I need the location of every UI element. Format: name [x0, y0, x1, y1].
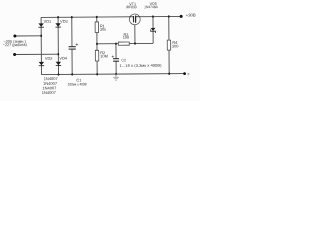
junction node gate net C2: [115, 42, 117, 45]
diode VD1: [38, 23, 43, 27]
junction node top rail R4: [168, 15, 170, 18]
wire gate net: [97, 42, 153, 44]
junction node top rail col2: [57, 16, 59, 19]
zener diode VD5: [151, 28, 156, 33]
junction node top rail C1: [71, 16, 73, 19]
resistor R1: [95, 22, 98, 33]
junction node bottom rail C1: [71, 73, 73, 76]
diode VD2: [39, 62, 44, 66]
svg-text:С2: С2: [121, 58, 126, 62]
svg-text:30к: 30к: [100, 27, 106, 32]
capacitor C2: [113, 59, 119, 62]
svg-text:1N4007: 1N4007: [42, 90, 57, 95]
wire bridge column 1: [40, 17, 42, 74]
resistor R3: [118, 42, 129, 45]
terminal output common: [183, 72, 186, 75]
resistor R4: [167, 40, 170, 50]
diode VD4: [56, 62, 61, 66]
terminal input A: [13, 34, 16, 37]
junction node top rail R1: [96, 16, 98, 19]
svg-text:1N4748A: 1N4748A: [144, 5, 158, 9]
junction node bottom rail R2: [96, 73, 98, 76]
wire R4 branch: [168, 17, 170, 74]
wire zener branch: [152, 17, 154, 44]
wire bridge column 2: [57, 17, 59, 74]
svg-text:+30В: +30В: [186, 13, 196, 18]
capacitor C1: [69, 47, 76, 49]
terminal input B: [13, 53, 16, 56]
resistor R2: [95, 50, 98, 61]
plus polarity C1: [76, 43, 79, 46]
plus polarity C2: [112, 56, 114, 58]
junction node bottom rail col2: [58, 73, 60, 76]
wire C1 branch: [71, 17, 73, 74]
svg-text:1...16 х (3,3мк х 400В): 1...16 х (3,3мк х 400В): [119, 64, 161, 68]
wire gate lead VT1: [134, 25, 136, 44]
junction node bottom rail R4: [168, 72, 170, 75]
svg-text:IRF830: IRF830: [126, 5, 137, 9]
junction node bottom rail ground: [115, 73, 117, 76]
svg-text:VD3: VD3: [60, 19, 68, 24]
svg-text:VD4: VD4: [59, 56, 67, 61]
svg-text:100мк х 400В: 100мк х 400В: [68, 82, 88, 86]
terminal +30V: [180, 15, 183, 18]
svg-text:100: 100: [123, 35, 130, 40]
svg-text:~227 (работа): ~227 (работа): [3, 42, 28, 47]
wire R1 R2 branch: [96, 17, 98, 74]
junction node gate net R1R2: [96, 43, 98, 46]
svg-text:300: 300: [172, 43, 179, 48]
wire input line A: [15, 35, 41, 37]
diode VD3: [55, 23, 60, 27]
wire C2 branch: [115, 44, 117, 74]
junction node input B col2: [57, 53, 59, 56]
junction node top rail VD5: [152, 15, 154, 18]
svg-text:VD1: VD1: [44, 19, 52, 24]
transistor VT1: [129, 14, 140, 25]
svg-text:10М: 10М: [100, 53, 108, 58]
junction node input A col1: [40, 35, 42, 38]
wire bottom rail: [41, 73, 184, 76]
svg-text:VD2: VD2: [45, 56, 53, 61]
ground: [113, 74, 119, 80]
wire top rail: [41, 15, 181, 18]
junction node gate net VT1: [134, 42, 136, 45]
wire input line B: [15, 53, 59, 55]
